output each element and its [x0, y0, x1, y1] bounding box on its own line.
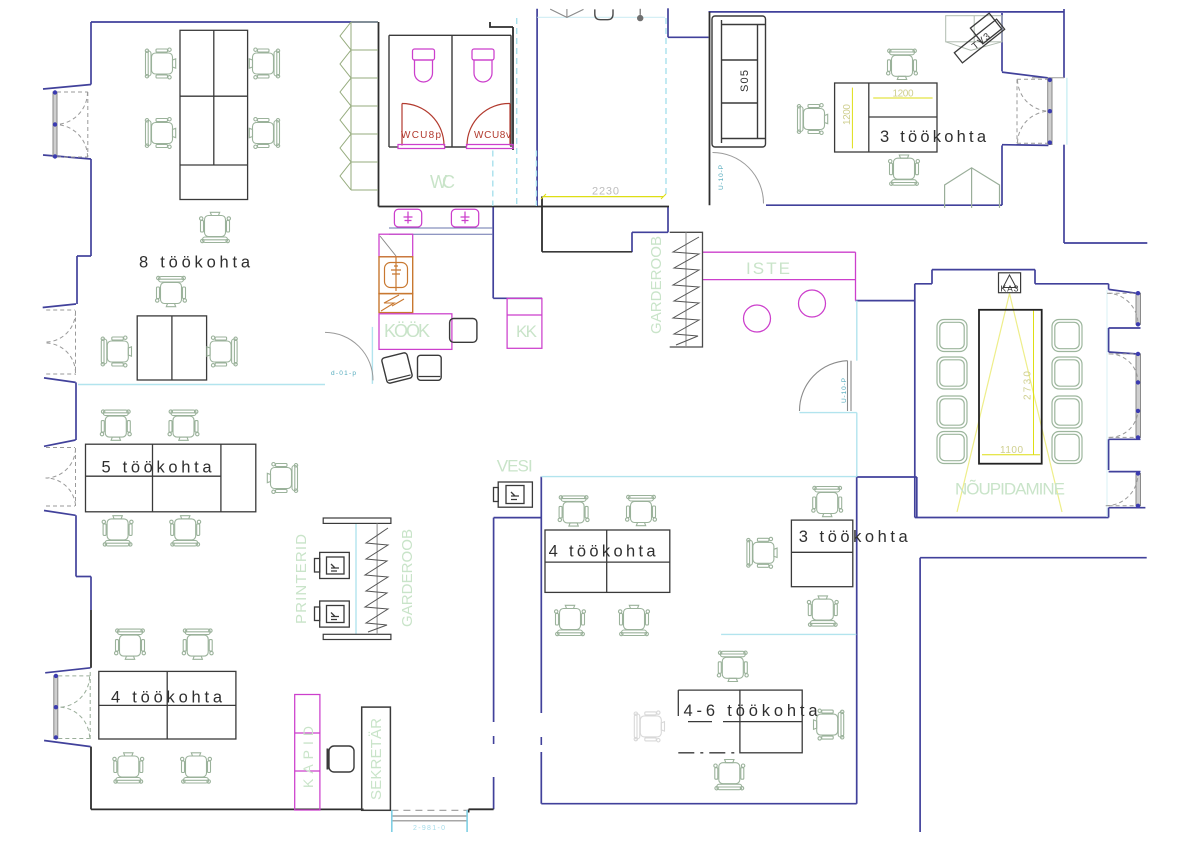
wall entrance to room [668, 36, 709, 38]
top-right room left wall [709, 12, 711, 205]
U shape [595, 9, 613, 19]
door opening dashes on shaft walls [494, 736, 542, 745]
WC door WCU8v [467, 103, 510, 145]
desk 3 tookohta top-right room [835, 83, 937, 152]
window W2 (open style) [46, 310, 76, 375]
desk 4 tookohta left [99, 671, 236, 739]
WC door WCU8v sill [467, 145, 514, 149]
wall left below window1 [90, 159, 92, 256]
TV3 [954, 19, 1005, 63]
projector beams [957, 294, 1062, 513]
wall left above window1 [90, 22, 92, 85]
top-right room top wall [709, 11, 1065, 13]
chairs desk 8 lower [101, 336, 131, 367]
svg-text:ISTE: ISTE [746, 259, 790, 278]
corridor wall below entrance [667, 207, 669, 232]
desk 4 tookohta right room [545, 530, 670, 592]
window W3 (open style) [46, 448, 76, 507]
door arc kook corridor [325, 332, 373, 380]
entrance hall left wall [536, 9, 538, 207]
office chair 17 [181, 753, 212, 783]
room divider 4tou right room top [541, 476, 856, 478]
svg-text:U-10-P: U-10-P [718, 165, 725, 190]
meeting wall stub 2 [1109, 438, 1141, 440]
window recess top line [1032, 77, 1064, 79]
dim line 2730 [1033, 310, 1035, 455]
desk 4-6 tookohta left top [678, 689, 740, 691]
chairs desk 5 [100, 410, 131, 440]
office chair 19 [626, 495, 657, 525]
reveal to window bottom [1002, 144, 1048, 147]
wall window1 top reveal [43, 85, 91, 90]
meeting windows inner cyan [1106, 290, 1108, 517]
secretary chair [328, 746, 355, 772]
outer wall right above window [1063, 9, 1065, 78]
wall x916.8 [916, 477, 918, 518]
stall bottom stubs [389, 146, 398, 148]
meeting chair [1052, 432, 1082, 464]
svg-text:GARDEROOB: GARDEROOB [648, 236, 665, 334]
wall jog at y256 [77, 255, 91, 257]
kook small table [450, 319, 477, 343]
office chair 5 [200, 212, 231, 242]
wall left x91 upper part [90, 577, 92, 611]
ISTE right wall cyan lower [856, 413, 858, 477]
pentagon stand [945, 168, 1000, 208]
window W4 [54, 672, 90, 740]
svg-text:4 töökohta: 4 töökohta [111, 688, 223, 706]
toilet 2 [472, 49, 494, 82]
outer window connector top-right [1066, 78, 1068, 145]
kook sink cell [379, 257, 413, 294]
2230 dim [543, 196, 663, 198]
svg-text:U-10-P: U-10-P [841, 378, 848, 403]
main bottom door opening [391, 810, 467, 832]
sink 1 [394, 209, 421, 227]
office chair 26 [797, 104, 827, 135]
meeting window2 top reveal [1109, 352, 1136, 354]
left wall lower black part [90, 610, 92, 668]
chairs desk 4-6 [717, 651, 748, 681]
desk 3 tookohta center [791, 520, 852, 587]
window W1 [53, 90, 88, 158]
meeting chair [937, 396, 967, 428]
outer wall east jog [1064, 242, 1147, 244]
kook lower counter [379, 314, 452, 350]
WC left wall [378, 22, 380, 207]
chairs desk 3 center [812, 486, 843, 516]
wall window3 bottom reveal [44, 511, 76, 516]
ISTE right wall cyan upper [856, 301, 858, 361]
meeting chair [1052, 396, 1082, 428]
office chair 30 [714, 760, 745, 790]
bottom wall west [91, 808, 364, 810]
garderoob nook left [631, 232, 633, 252]
stool 2 [418, 355, 442, 380]
kook counter top cell [379, 234, 413, 257]
svg-text:WCU8v: WCU8v [474, 130, 511, 141]
meeting room top wall west [915, 283, 932, 285]
office chair 20 [555, 605, 586, 635]
svg-text:2230: 2230 [592, 186, 619, 198]
central bottom wall [541, 803, 856, 805]
svg-text:4 töökohta: 4 töökohta [549, 542, 657, 560]
TV3 box 2 [970, 13, 1001, 44]
office chair 4 [249, 118, 279, 149]
WC door WCU8p [402, 104, 444, 146]
meeting room top notch left [931, 270, 933, 284]
garderoob nook top [632, 231, 668, 233]
meeting chair [937, 357, 967, 389]
svg-text:NÕUPIDAMINE: NÕUPIDAMINE [955, 480, 1065, 499]
chairs desk 4 left [115, 629, 146, 659]
meeting right wall stub top [1108, 284, 1110, 290]
office chair 29 [814, 709, 844, 740]
bottom wall at door east [469, 808, 494, 810]
svg-text:3 töökohta: 3 töökohta [880, 128, 987, 146]
wall below ISTE y477 [857, 476, 917, 478]
office chair 8 [156, 276, 187, 306]
WC bottom wall / entrance hall bottom [379, 206, 670, 208]
toilet 1 [413, 49, 435, 82]
desk dims 1200 horizontal [873, 97, 932, 99]
desk 4-6 dashed parts [678, 722, 740, 753]
room divider line top-left [78, 384, 325, 386]
meeting right wall seg1 [1108, 328, 1110, 352]
meeting room top wall mid [932, 269, 1035, 271]
corridor shaft left wall [493, 518, 495, 722]
meeting room bottom wall [915, 517, 1109, 519]
meeting wall stub 1 [1109, 327, 1141, 329]
meeting table [979, 310, 1042, 464]
printer 1 [315, 552, 350, 578]
outer wall right below window [1063, 145, 1065, 243]
kook stove cell [379, 294, 413, 313]
KK nook left wall [492, 207, 494, 298]
meeting room connector wall [856, 300, 915, 302]
door jamb kook [371, 327, 373, 384]
meeting room left wall [914, 284, 916, 518]
top-right room door arc [713, 153, 764, 204]
meeting room top notch right [1034, 270, 1036, 284]
kook sink [385, 257, 408, 291]
wall window4 top reveal [45, 668, 90, 673]
stall divider [451, 35, 453, 147]
KK nook bottom cap [493, 297, 542, 299]
wall jog at y577 [76, 576, 91, 578]
top-right room right wall upper [1001, 13, 1003, 71]
top-right room bottom wall [766, 204, 1002, 206]
office chair 3 [249, 48, 279, 79]
svg-text:KK: KK [516, 322, 538, 341]
desk block 8 tookohta upper [180, 30, 248, 199]
wall left x77 [76, 256, 78, 304]
meeting chairs right [1052, 320, 1082, 352]
wall top-left room top [91, 21, 378, 23]
iste stool circle 1 [744, 305, 771, 332]
svg-text:1200: 1200 [893, 89, 914, 100]
meeting chair [1052, 357, 1082, 389]
TV corner desk (gray) [946, 16, 1002, 51]
office chair 12 [102, 516, 133, 546]
wall left below window3 [75, 515, 77, 576]
svg-text:5 töökohta: 5 töökohta [102, 458, 213, 476]
desk 4-6 tookohta right part [740, 690, 802, 753]
office chair 15 [182, 629, 213, 659]
desk 5 tookohta [86, 444, 256, 512]
wall y252 to garderoob [542, 251, 632, 253]
bottom door step [468, 809, 470, 812]
svg-text:VESI: VESI [497, 457, 533, 476]
meeting room windows [1106, 291, 1141, 508]
corridor shaft cap [494, 517, 542, 519]
corridor shaft right wall [540, 477, 542, 713]
iste door bottom line [800, 412, 857, 414]
office chair 11 [267, 463, 297, 494]
sink counter lines [389, 227, 493, 229]
corridor shaft right wall lower [540, 752, 542, 804]
iste stool circle 2 [799, 290, 826, 317]
meeting chairs left [937, 320, 967, 352]
WC door WCU8p sill [398, 145, 445, 149]
meeting window1 top reveal [1109, 289, 1136, 293]
office chair 21 [619, 605, 650, 635]
chairs desk 8 upper [145, 48, 175, 79]
svg-text:PRINTERID: PRINTERID [293, 534, 310, 624]
office chair 2 [145, 118, 175, 149]
svg-text:GARDEROOB: GARDEROOB [399, 529, 416, 627]
lower-right room left wall [919, 558, 921, 832]
svg-text:SEKRETÄR: SEKRETÄR [368, 718, 385, 800]
svg-text:2-981-0: 2-981-0 [413, 825, 445, 832]
office chair 13 [170, 516, 201, 546]
office chair 23 [747, 537, 777, 568]
office chair 24 [807, 596, 838, 626]
office chair 7 [207, 336, 237, 367]
printer 2 [315, 601, 350, 627]
dim line 1100 [982, 454, 1040, 456]
corridor shaft left wall lower [493, 777, 495, 809]
top-right room right wall lower [1001, 145, 1003, 205]
garderoob cyan [355, 523, 357, 634]
desk dims 1200 vertical [851, 88, 853, 149]
entrance hall inner top line [537, 16, 665, 18]
svg-text:8 töökohta: 8 töökohta [139, 254, 251, 272]
center-right wall x856.7 [856, 477, 858, 804]
chairs desk 4 right room [558, 496, 589, 526]
meeting right wall seg3 [1108, 508, 1110, 518]
meeting wall stub 3 [1109, 471, 1141, 473]
sofa S05 [712, 16, 766, 147]
kk nook black wall [541, 196, 543, 251]
wall window2 top reveal [43, 304, 76, 308]
svg-text:2730: 2730 [1023, 371, 1034, 400]
room divider 4-6 top [721, 633, 856, 635]
ISTE door leaf [799, 361, 851, 411]
wall window2 bottom reveal [44, 378, 76, 383]
stall right wall [510, 35, 512, 147]
svg-text:KA3: KA3 [1001, 284, 1019, 294]
svg-text:1100: 1100 [1000, 445, 1023, 456]
office chair 16 [113, 753, 144, 783]
svg-text:S05: S05 [739, 70, 751, 92]
svg-text:1200: 1200 [842, 104, 853, 125]
stove zigzag [381, 295, 404, 311]
meeting wall stub bottom [1109, 507, 1146, 509]
kook diagonal [380, 236, 396, 256]
wall left between window2-3 [75, 382, 77, 440]
office chair 10 [168, 410, 199, 440]
meeting chair [937, 432, 967, 464]
stool 1 tilted [381, 352, 413, 384]
svg-text:WC: WC [430, 172, 455, 192]
WC top notch [490, 22, 513, 27]
window top-right room [1017, 78, 1052, 145]
meeting room top wall east [1035, 283, 1109, 285]
wall window4 bottom reveal [44, 741, 91, 747]
svg-text:KÖÖK: KÖÖK [384, 321, 430, 341]
svg-text:3 töökohta: 3 töökohta [799, 528, 909, 546]
KA3 box [999, 273, 1021, 294]
desk block 8 tookohta lower [137, 316, 206, 380]
entry column dot [637, 15, 643, 21]
chairs desk 3 top-right [887, 49, 918, 79]
ghost chair [634, 711, 664, 742]
svg-text:WCU8p: WCU8p [401, 130, 441, 141]
entrance hall right wall [667, 8, 669, 37]
svg-text:KAPID: KAPID [300, 726, 316, 788]
WC right wall [512, 27, 514, 150]
arrow V [550, 9, 583, 17]
cyan dashed verticals at WC/entry [493, 18, 666, 206]
lower-right room top wall [920, 557, 1147, 559]
wall window1 bottom reveal [43, 155, 91, 159]
office chair 27 [889, 155, 920, 185]
sink 2 [451, 209, 478, 227]
wall window3 top reveal [44, 440, 76, 446]
stall top wall [389, 34, 511, 36]
meeting right wall seg2 [1108, 439, 1110, 470]
reveal to window top [1002, 72, 1048, 78]
stall left wall [388, 35, 390, 147]
